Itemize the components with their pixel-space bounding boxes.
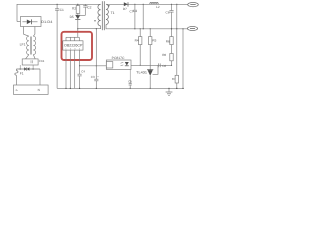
svg-text:OB2226CP: OB2226CP xyxy=(64,44,83,48)
svg-text:C5: C5 xyxy=(128,80,132,84)
svg-text:R2: R2 xyxy=(72,6,76,10)
svg-text:D1-D4: D1-D4 xyxy=(41,20,52,24)
svg-text:D5: D5 xyxy=(70,15,74,19)
svg-text:R5: R5 xyxy=(152,38,156,42)
svg-text:N: N xyxy=(38,88,40,92)
svg-text:PC817C: PC817C xyxy=(112,56,126,60)
svg-text:T1: T1 xyxy=(111,11,115,15)
svg-text:C4: C4 xyxy=(81,70,85,74)
svg-text:R6: R6 xyxy=(166,39,170,43)
svg-text:LF1: LF1 xyxy=(20,43,26,47)
svg-text:TL431: TL431 xyxy=(136,71,147,75)
svg-text:L2: L2 xyxy=(156,5,160,9)
svg-text:D7: D7 xyxy=(123,7,127,11)
svg-text:C3: C3 xyxy=(91,75,95,79)
svg-text:C2: C2 xyxy=(87,6,91,10)
svg-text:C7: C7 xyxy=(130,9,134,13)
svg-text:R8: R8 xyxy=(162,53,166,57)
svg-text:~L: ~L xyxy=(15,88,19,92)
svg-text:C8: C8 xyxy=(166,10,170,14)
svg-text:C6: C6 xyxy=(162,64,166,68)
svg-text:CX1: CX1 xyxy=(39,59,45,63)
svg-text:R7: R7 xyxy=(172,77,176,81)
svg-text:R4: R4 xyxy=(135,38,139,42)
svg-text:C1: C1 xyxy=(60,8,64,12)
svg-text:F1: F1 xyxy=(20,72,24,76)
